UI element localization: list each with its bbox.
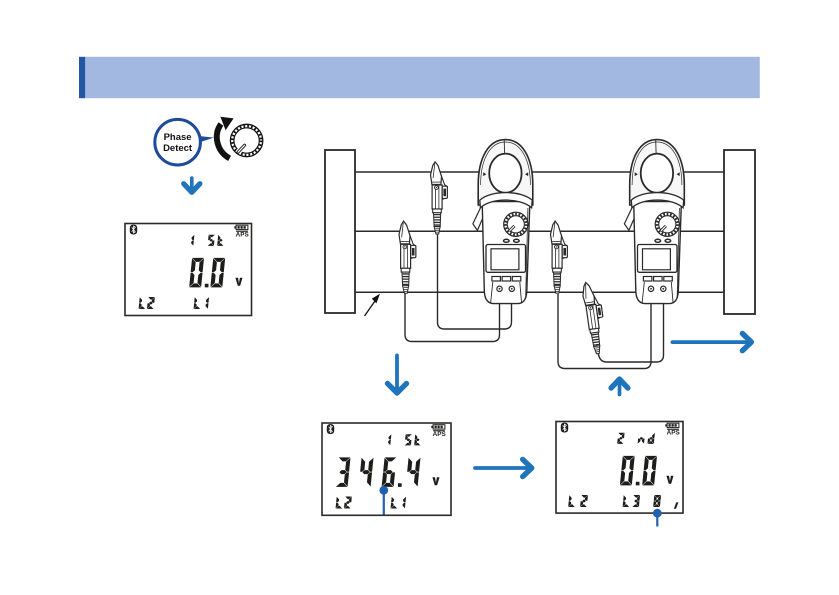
main reading digits	[189, 258, 225, 288]
up arrow	[611, 379, 628, 394]
mode indicator text	[191, 235, 223, 246]
bluetooth icon	[130, 225, 137, 235]
test lead from clip 1 to meter 1	[438, 230, 512, 329]
LCD display frame	[322, 423, 451, 515]
svg-text:APS: APS	[236, 232, 250, 239]
blue callout pin	[656, 515, 658, 527]
svg-text:Phase: Phase	[164, 132, 192, 143]
battery indicator and APS	[431, 425, 446, 438]
unit V	[666, 476, 673, 484]
phase labels	[568, 495, 678, 509]
battery indicator and APS	[665, 423, 680, 436]
mode indicator text	[617, 433, 655, 444]
down arrow	[388, 355, 407, 393]
rotate arrow	[217, 117, 234, 159]
arrow between displays	[475, 459, 532, 476]
test lead from clip 3 to meter 2	[558, 294, 651, 369]
unit V	[432, 477, 439, 485]
bluetooth icon	[561, 423, 568, 433]
test lead from clip 2 to meter 1	[405, 293, 500, 342]
clamp meter 1	[473, 140, 533, 304]
phase labels	[139, 297, 209, 309]
phase labels	[336, 497, 406, 509]
LCD display 2	[322, 423, 451, 515]
LCD display frame	[125, 224, 252, 316]
bluetooth icon	[327, 424, 334, 434]
rotary knob icon	[230, 124, 262, 156]
LCD display 3	[556, 422, 683, 527]
alligator clip 3	[551, 221, 568, 293]
bus bar right	[724, 150, 755, 314]
unit V	[235, 278, 242, 286]
clamp meter 2	[624, 140, 684, 304]
Phase Detect bubble	[155, 119, 214, 165]
header accent stripe	[79, 57, 85, 98]
svg-text:APS: APS	[667, 430, 681, 437]
mode indicator text	[388, 434, 420, 445]
LCD display 1	[125, 224, 252, 316]
main reading digits	[620, 456, 657, 486]
LCD display frame	[556, 422, 683, 514]
blue callout pin	[383, 492, 385, 515]
phase wire L2	[355, 230, 724, 232]
battery indicator and APS	[234, 225, 249, 238]
test lead from clip 4 to meter 2	[598, 297, 664, 362]
svg-text:Detect: Detect	[163, 143, 193, 154]
wire pointer arrow	[365, 294, 381, 316]
alligator clip 4	[581, 281, 608, 355]
right arrow	[672, 334, 751, 351]
phase wire L3	[355, 291, 724, 293]
small down arrow	[184, 178, 200, 192]
svg-text:APS: APS	[433, 431, 447, 438]
main reading digits	[336, 457, 421, 487]
alligator clip 2	[399, 221, 416, 293]
bus bar left	[325, 150, 355, 313]
phase wire L1	[355, 171, 724, 173]
header bar	[85, 57, 760, 98]
alligator clip 1	[431, 162, 448, 234]
